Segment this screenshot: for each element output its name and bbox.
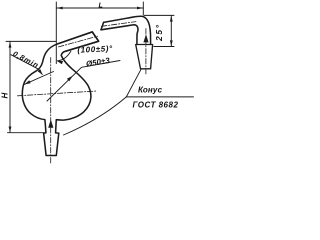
svg-text:(100±5)°: (100±5)°	[77, 44, 113, 55]
svg-text:Конус: Конус	[138, 86, 163, 95]
svg-text:25°: 25°	[154, 23, 164, 42]
svg-text:H: H	[1, 93, 10, 99]
svg-text:ГОСТ 8682: ГОСТ 8682	[133, 101, 179, 110]
svg-text:L: L	[99, 2, 103, 9]
